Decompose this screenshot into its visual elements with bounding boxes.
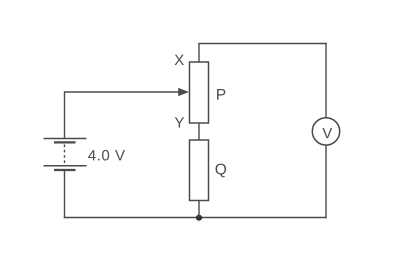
- dashed link between cells: [64, 145, 66, 166]
- wire: left vertical, corner down to battery top: [64, 91, 66, 138]
- node Y label: [175, 117, 184, 127]
- wire: right vertical lower: [325, 145, 327, 218]
- wire: top rail: [198, 43, 326, 45]
- resistor P (potentiometer track): [190, 62, 209, 123]
- battery cell 1 short thick plate (-): [54, 141, 76, 143]
- label Q: [216, 164, 227, 178]
- wire: left vertical, battery bottom to bottom rail: [64, 170, 66, 218]
- wire: junction up to resistor Q: [198, 201, 200, 218]
- wire: between P and Q: [198, 123, 200, 140]
- battery cell 2 long plate (+): [44, 165, 87, 167]
- arrowhead at resistor P left edge: [178, 88, 189, 96]
- battery cell 2 short thick plate (-): [54, 169, 76, 171]
- battery label 4.0 V: [88, 150, 125, 161]
- node X label: [175, 55, 184, 65]
- voltmeter V label: [322, 128, 332, 138]
- junction node dot: [196, 215, 202, 221]
- wire: top of P to top rail: [198, 44, 200, 63]
- label P: [217, 89, 225, 100]
- battery cell 1 long plate (+): [44, 138, 87, 140]
- wire: right vertical upper: [325, 43, 327, 118]
- resistor Q: [190, 140, 209, 201]
- wire: horizontal arrow feed from battery to wiper of P: [65, 91, 182, 93]
- wire: bottom rail: [64, 217, 327, 219]
- voltmeter V1 body: [312, 118, 339, 145]
